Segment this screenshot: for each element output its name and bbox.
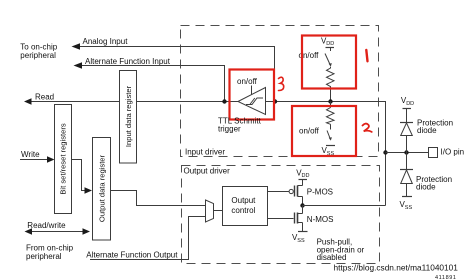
wire: schmitt base to io pin corner, down to output node xyxy=(266,102,386,206)
arrowhead alternate function input xyxy=(74,62,83,69)
svg-text:DD: DD xyxy=(302,173,310,179)
svg-text:Read: Read xyxy=(35,92,54,101)
node: diode column junction xyxy=(404,150,408,154)
power VSS below N-MOS xyxy=(298,231,308,233)
svg-text:I/O pin: I/O pin xyxy=(441,148,465,157)
wire: analog input line xyxy=(79,47,275,102)
svg-text:diode: diode xyxy=(417,126,437,135)
arrowhead write xyxy=(47,156,55,163)
arrowhead read xyxy=(24,98,32,105)
red annotation digit 2 xyxy=(363,124,372,132)
red annotation digit 1 xyxy=(366,50,367,61)
svg-text:control: control xyxy=(231,206,255,215)
svg-text:diode: diode xyxy=(416,182,436,191)
I/O pin square xyxy=(429,148,438,158)
wire: read line to input data register xyxy=(30,101,120,103)
svg-text:on/off: on/off xyxy=(299,126,320,135)
wire: alternate function input line xyxy=(81,66,225,102)
wire pull-up to main line xyxy=(330,89,332,102)
red annotation box 3 around schmitt xyxy=(230,70,275,120)
wire: output control to N-MOS gate xyxy=(268,218,294,220)
svg-text:Input data register: Input data register xyxy=(124,85,133,147)
svg-text:trigger: trigger xyxy=(218,125,241,134)
pull-up switch xyxy=(325,54,331,66)
pull-down switch xyxy=(327,131,331,140)
pull-down VSS bar and label xyxy=(326,145,335,147)
svg-text:Input driver: Input driver xyxy=(185,148,225,157)
wire: io pin line xyxy=(386,152,429,154)
pull-down resistor from main line xyxy=(330,102,332,108)
node: analog input junction xyxy=(273,99,277,103)
wire: bit set/reset to output data register xyxy=(72,160,87,191)
svg-text:Alternate Function Output: Alternate Function Output xyxy=(86,250,178,259)
node: AF input junction xyxy=(222,99,226,103)
svg-text:Write: Write xyxy=(21,150,40,159)
wire: write line xyxy=(20,159,49,161)
wire: output data register to mux xyxy=(111,191,206,206)
svg-text:Alternate Function Input: Alternate Function Input xyxy=(85,57,171,66)
svg-text:411891: 411891 xyxy=(435,275,457,279)
svg-text:on/off: on/off xyxy=(237,77,258,86)
svg-text:Bit set/reset registers: Bit set/reset registers xyxy=(59,123,68,195)
power VSS below lower diode xyxy=(402,196,412,198)
svg-text:DD: DD xyxy=(326,41,334,47)
mux xyxy=(206,200,214,222)
wire: drain junction to io pin column xyxy=(303,205,386,207)
wire: main line input data register to schmitt apex xyxy=(137,101,239,103)
svg-text:N-MOS: N-MOS xyxy=(307,215,334,224)
output driver dashed box xyxy=(182,166,380,264)
svg-text:DD: DD xyxy=(406,101,414,107)
transistor P-MOS xyxy=(289,189,293,193)
protection diode lower xyxy=(406,153,408,170)
wire: mux to output control xyxy=(214,210,223,212)
input driver dashed box xyxy=(181,26,379,157)
svg-text:disabled: disabled xyxy=(317,253,347,262)
arrowhead into output data register xyxy=(85,187,93,194)
svg-text:peripheral: peripheral xyxy=(20,51,56,60)
protection diode upper xyxy=(406,109,408,123)
svg-text:SS: SS xyxy=(405,205,413,211)
svg-text:SS: SS xyxy=(297,238,305,244)
wire: output control to P-MOS gate xyxy=(268,191,290,193)
wire: schmitt on/off control xyxy=(251,86,253,96)
transistor N-MOS xyxy=(294,213,296,224)
node: io column to pin line junction xyxy=(383,150,387,154)
register: output data register box xyxy=(93,138,111,241)
schmitt trigger triangle xyxy=(238,88,266,115)
red annotation box 1 xyxy=(302,36,356,89)
svg-text:Output data register: Output data register xyxy=(97,154,106,222)
pull-up VDD bar xyxy=(326,47,335,49)
svg-text:Output: Output xyxy=(231,196,256,205)
register: bit set/reset registers box xyxy=(55,105,72,214)
svg-text:Read/write: Read/write xyxy=(27,221,66,230)
schmitt hysteresis glyph xyxy=(246,98,263,105)
svg-text:peripheral: peripheral xyxy=(26,252,62,261)
arrowhead read/write left xyxy=(25,228,33,235)
red annotation box 2 xyxy=(292,106,356,156)
register: input data register box xyxy=(120,71,137,164)
pull-up resistor xyxy=(327,67,335,89)
wire: read/write double arrow xyxy=(30,231,84,233)
wire: alternate function output line xyxy=(90,217,206,260)
svg-text:Analog Input: Analog Input xyxy=(83,37,129,46)
node: mos drain junction xyxy=(300,203,304,207)
svg-text:P-MOS: P-MOS xyxy=(307,187,333,196)
output control box xyxy=(223,187,268,226)
svg-text:Output driver: Output driver xyxy=(184,166,231,175)
red annotation digit 3 xyxy=(279,77,284,90)
node: pull junction on main line xyxy=(328,99,332,103)
arrowhead read/write right xyxy=(83,228,91,235)
svg-text:https://blog.csdn.net/ma110401: https://blog.csdn.net/ma11040101 xyxy=(334,263,459,273)
arrowhead analog input xyxy=(72,43,81,50)
